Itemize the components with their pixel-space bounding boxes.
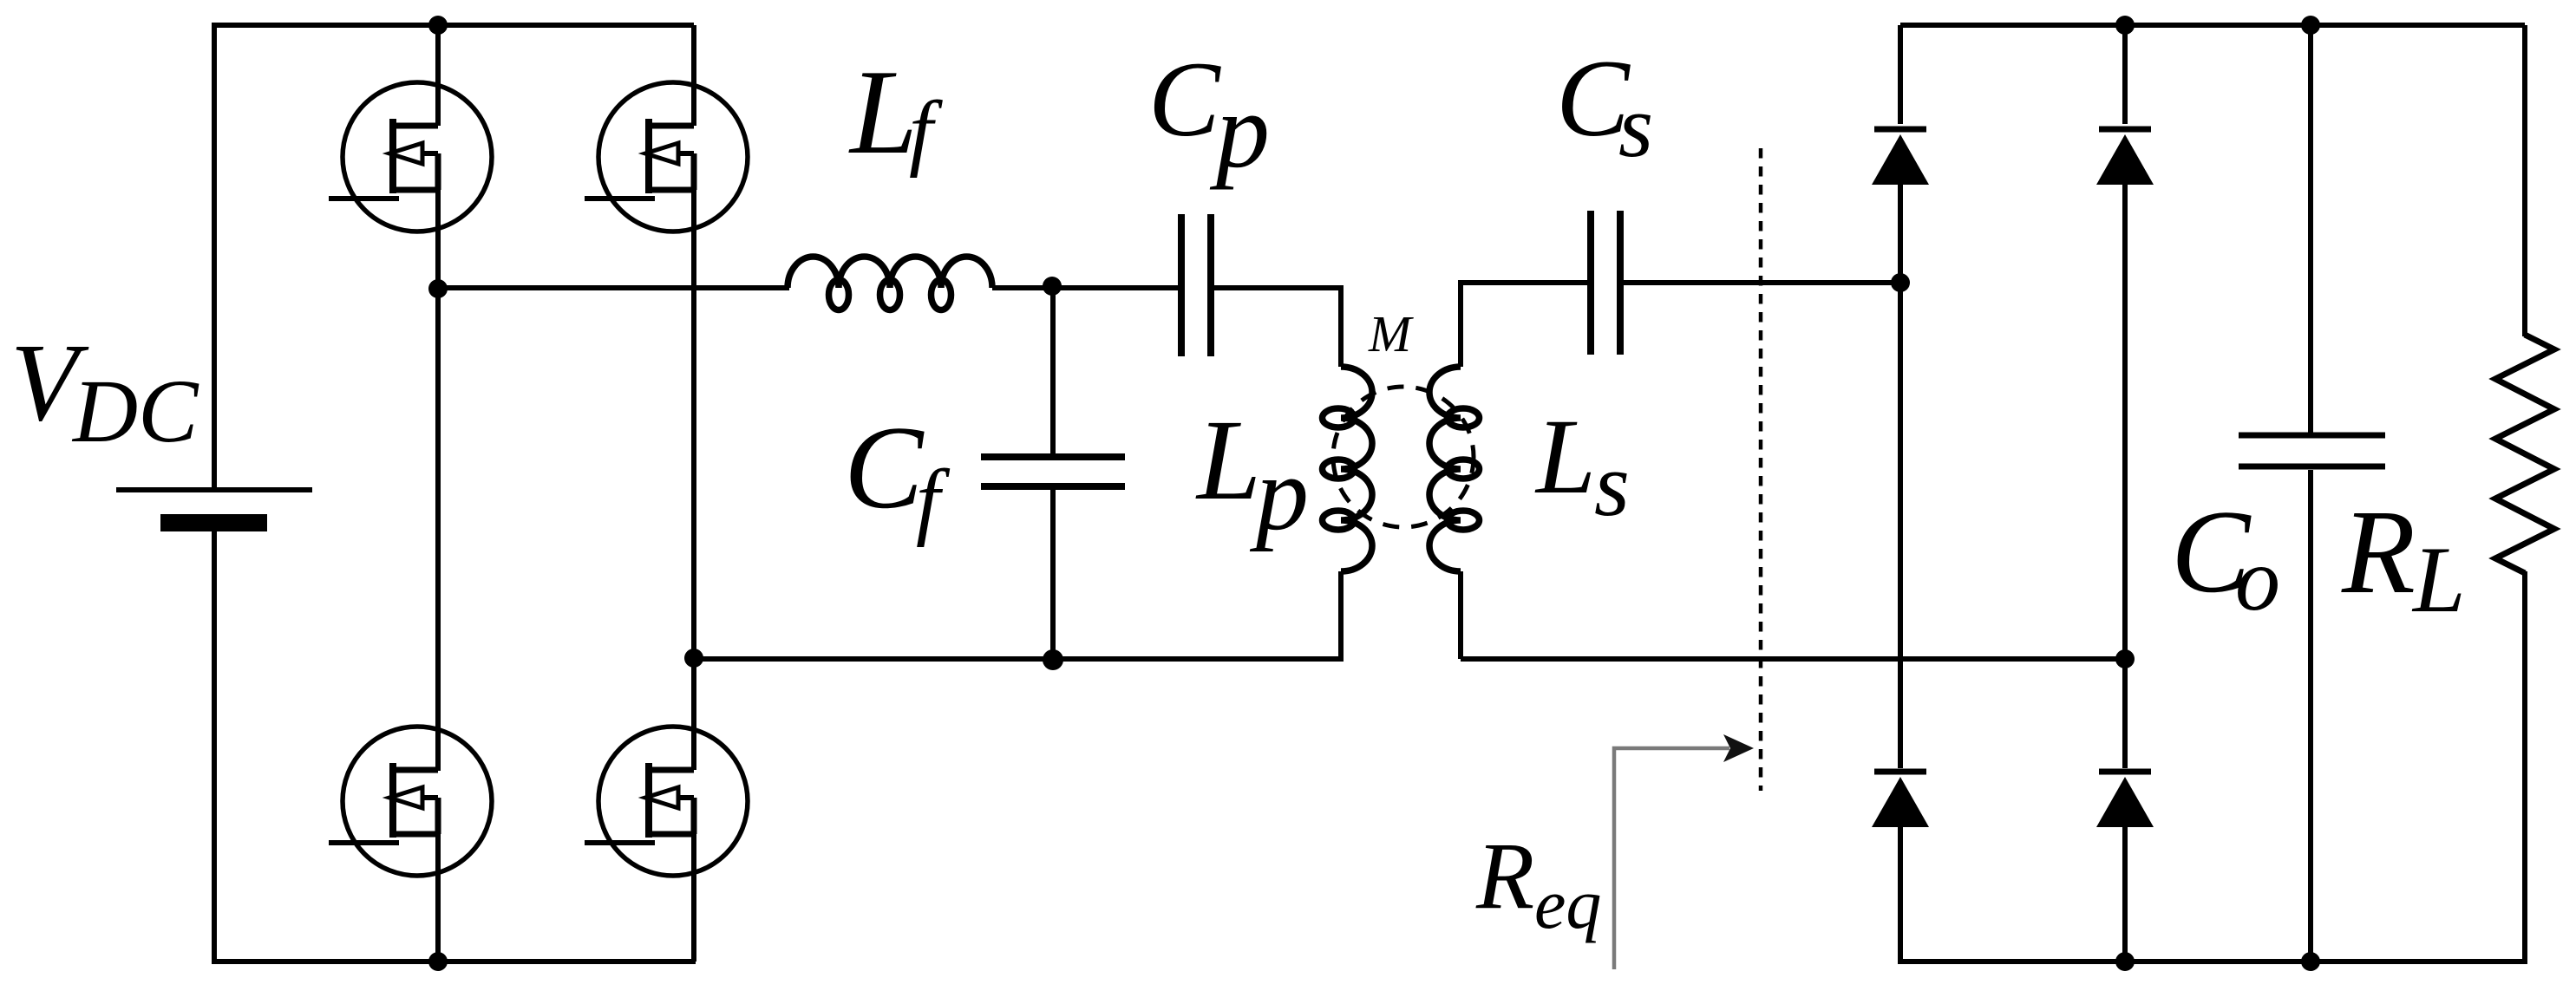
wire: RL branch lower	[2522, 571, 2527, 964]
wire: top rail left (battery to bridge)	[214, 23, 694, 28]
capacitor Co	[2239, 435, 2385, 466]
svg-text:p: p	[1249, 435, 1309, 552]
wire: Cf branch upper	[1050, 286, 1056, 453]
wire: rectifier top rail	[1900, 23, 2525, 28]
Req arrow	[1614, 748, 1729, 969]
svg-text:L: L	[1534, 397, 1596, 516]
wire: Co branch upper	[2308, 25, 2313, 433]
node: rectifier input top (Cs wire / leg1)	[1891, 273, 1910, 292]
wire: rectifier leg2 upper	[2122, 25, 2128, 124]
wire: Cp to Lp corner	[1214, 288, 1341, 367]
wire: secondary return rail	[1461, 656, 2125, 662]
svg-text:s: s	[1618, 77, 1653, 176]
diode D1 (top left)	[1872, 129, 1929, 185]
wire: primary return rail	[694, 656, 1344, 662]
battery VDC plate -	[160, 514, 267, 531]
wire: Lp bottom lead	[1338, 571, 1344, 659]
node: Lf / Cf junction	[1043, 277, 1062, 296]
wire: Co branch lower	[2308, 470, 2313, 962]
battery VDC plate +	[116, 487, 312, 492]
svg-text:eq: eq	[1534, 864, 1601, 943]
capacitor Cp	[1181, 214, 1211, 356]
node: left leg / output junction	[428, 279, 448, 298]
wire: rectifier leg1 upper	[1898, 25, 1903, 124]
wire: leg1 lower	[1898, 825, 1903, 964]
wire: Cs to rectifier input	[1624, 280, 1900, 285]
transistor Q3 (bottom-left MOSFET)	[329, 727, 492, 876]
diode D3 (bottom left)	[1872, 772, 1929, 827]
inductor Lp (primary coil)	[1323, 367, 1373, 571]
diode D2 (top right)	[2096, 129, 2154, 185]
wire: left bridge leg lower (Q3 source to bottom rail)	[435, 798, 441, 962]
node: top rail / Co	[2301, 16, 2320, 35]
wire: left bridge leg middle (Q1 source to Q3 drain)	[435, 153, 441, 771]
diode D4 (bottom right)	[2096, 772, 2154, 827]
svg-text:R: R	[1475, 823, 1534, 929]
wire: leg1 between D1 and input node	[1898, 182, 1903, 768]
wire: battery left rail upper	[212, 23, 217, 487]
transistor Q2 (top-right MOSFET)	[585, 82, 748, 231]
wire: right bridge leg middle (Q2 source to Q4 drain)	[691, 153, 696, 770]
boundary dashed line	[1759, 148, 1763, 791]
wire: right bridge leg upper (drain Q2)	[691, 25, 696, 126]
capacitor Cs	[1591, 211, 1620, 355]
wire: rectifier bottom rail	[1900, 959, 2525, 964]
wire: leg2 between D2 and input node	[2122, 182, 2128, 768]
wire: Lf to Cp	[992, 285, 1178, 290]
node: bottom rail / Co	[2301, 952, 2320, 971]
svg-text:C: C	[844, 401, 925, 533]
wire: left bridge leg upper (drain Q1)	[435, 25, 441, 126]
coupling M dashed circle	[1333, 387, 1474, 527]
svg-text:L: L	[848, 45, 918, 179]
node: bottom rail / leg2	[2115, 952, 2135, 971]
node: top rail / left leg junction	[428, 16, 448, 35]
transistor Q1 (top-left MOSFET)	[329, 82, 492, 231]
wire: bridge output to Lf	[438, 285, 789, 290]
wire: Cf branch lower	[1050, 490, 1056, 660]
wire: battery left rail lower	[212, 524, 217, 964]
node: rectifier input bottom (return rail / leg2)	[2115, 649, 2135, 668]
wire: Ls top lead to Cs	[1461, 283, 1587, 367]
node: Cf / primary return junction	[1043, 649, 1063, 670]
resistor RL zigzag	[2495, 335, 2554, 573]
wire: bottom rail of bridge	[212, 959, 696, 964]
svg-text:s: s	[1594, 434, 1630, 535]
transistor Q4 (bottom-right MOSFET)	[585, 727, 748, 876]
node: bottom rail / left leg junction	[428, 952, 448, 971]
svg-text:R: R	[2341, 486, 2416, 619]
node: right leg / primary return junction	[684, 649, 703, 668]
svg-text:C: C	[1148, 40, 1221, 159]
svg-text:DC: DC	[71, 362, 199, 461]
svg-text:L: L	[1195, 395, 1261, 524]
inductor Ls (secondary coil)	[1429, 367, 1480, 571]
svg-text:M: M	[1368, 305, 1414, 362]
wire: Ls bottom lead	[1458, 571, 1463, 659]
wire: RL branch upper	[2522, 25, 2527, 336]
svg-text:p: p	[1209, 71, 1270, 190]
node: top rail / leg2	[2115, 16, 2135, 35]
capacitor Cf	[981, 457, 1125, 486]
svg-text:o: o	[2235, 530, 2280, 629]
wire: right bridge leg lower (Q4 source to bottom rail)	[691, 798, 696, 962]
inductor Lf	[788, 257, 992, 310]
wire: leg2 lower	[2122, 825, 2128, 962]
svg-text:L: L	[2411, 527, 2466, 632]
